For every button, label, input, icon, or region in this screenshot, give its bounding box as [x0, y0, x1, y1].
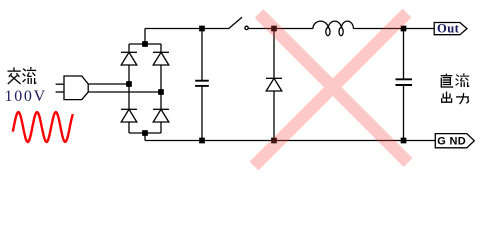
label: AC source 交流 (hand-drawn kanji) [8, 67, 37, 84]
wire: riser bridge top to +rail [144, 29, 146, 45]
AC sine waveform [13, 112, 73, 142]
junction: C1 bottom [200, 138, 204, 142]
bridge top wire [129, 43, 161, 45]
svg-text:100V: 100V [5, 88, 47, 105]
wire: bridge bottom to GND rail [144, 133, 146, 141]
junction: D5 bottom [272, 138, 276, 142]
wire: plug to bridge right AC input [88, 91, 161, 93]
junction: bridge top node [143, 42, 147, 46]
junction: bridge bottom node [143, 131, 147, 135]
crossed-out marker X (not-used section) [254, 13, 408, 166]
node Out (output terminal) [434, 21, 467, 35]
diode D5 (freewheel) [266, 29, 282, 141]
switch SW1 (open) [229, 17, 249, 29]
junction: C2 top [401, 26, 405, 30]
junction: AC right node [159, 90, 163, 94]
wire: + rail from bridge to switch [145, 28, 229, 30]
diode D4 (bridge bottom-right) [153, 92, 169, 133]
label: DC output 直流出力 (hand-drawn kanji) [441, 74, 454, 87]
wire: GND rail [145, 140, 435, 142]
AC plug P1 [56, 76, 89, 100]
wire: + rail switch to inductor [248, 28, 313, 30]
diode D1 (bridge top-left) [121, 44, 137, 84]
junction: D5 top [272, 26, 276, 30]
inductor L1 [313, 21, 353, 36]
junction: C2 bottom [401, 138, 405, 142]
capacitor C1 [195, 29, 209, 141]
svg-text:Out: Out [437, 21, 460, 35]
svg-text:G ND: G ND [437, 135, 466, 147]
junction: AC left node [127, 82, 131, 86]
wire: plug to bridge left AC input [88, 83, 129, 85]
junction: C1 top [200, 26, 204, 30]
node GND (ground terminal) [435, 134, 474, 148]
capacitor C2 [396, 29, 413, 141]
diode D3 (bridge bottom-left) [121, 84, 137, 133]
wire: + rail inductor to Out [353, 28, 434, 30]
bridge bottom wire [129, 132, 161, 134]
diode D2 (bridge top-right) [153, 44, 169, 92]
